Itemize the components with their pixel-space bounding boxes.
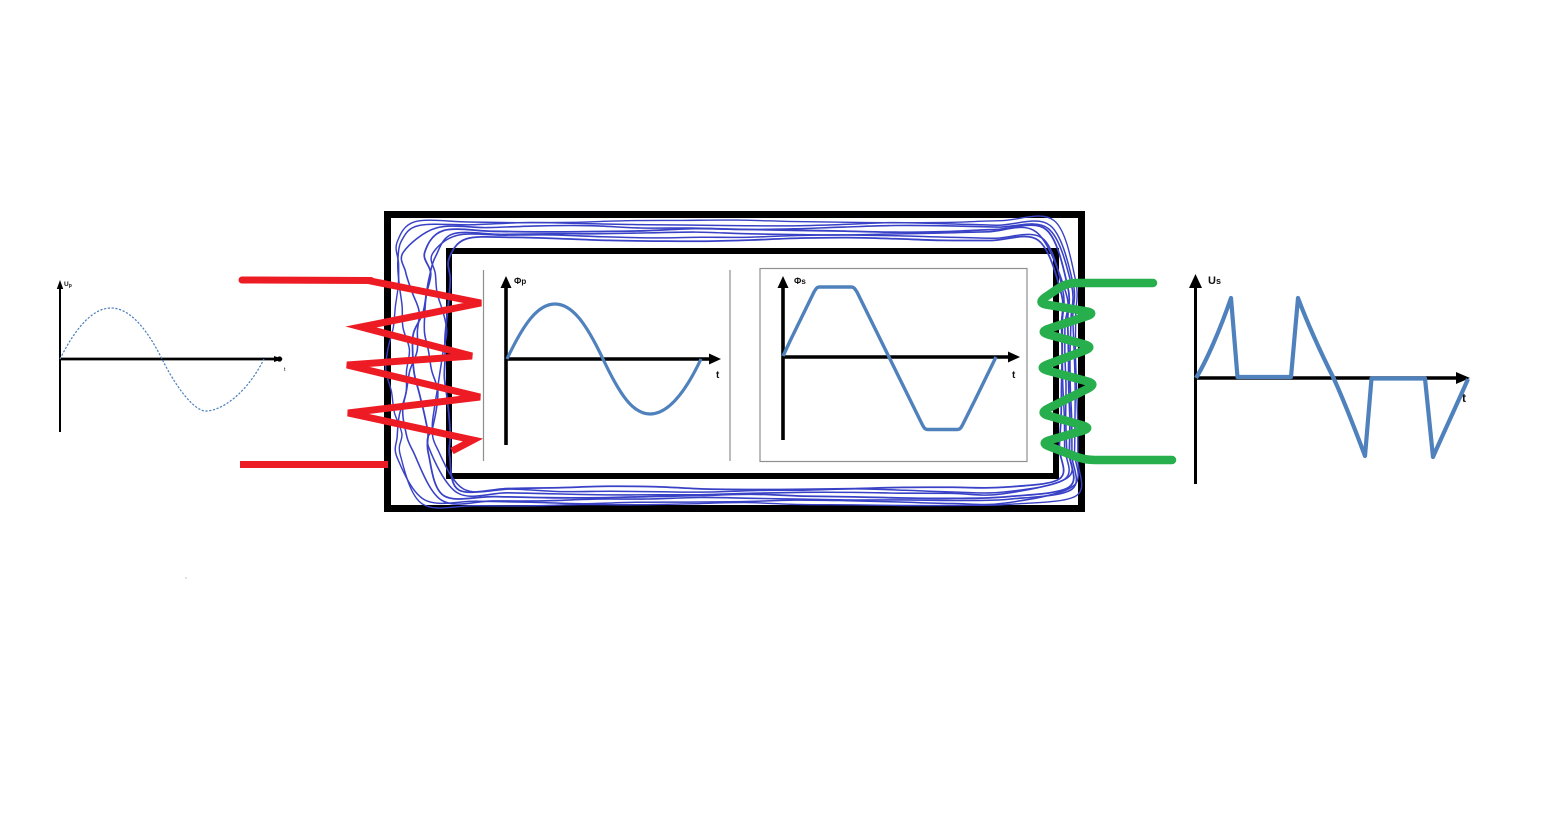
- axis: Up horizontal: [60, 358, 276, 361]
- graph: secondary voltage Us (right outer chart): [1189, 274, 1470, 484]
- axis: flux-s horizontal: [783, 355, 1011, 359]
- flux line F6: [431, 234, 1069, 493]
- wire: primary bottom lead: [240, 461, 388, 468]
- chart box edges: [483, 270, 485, 461]
- flux line F1: [386, 216, 1082, 508]
- curve: flux-p sine wave: [507, 304, 701, 414]
- axis: flux-p horizontal: [506, 357, 712, 361]
- axis: Us vertical: [1194, 284, 1197, 484]
- transformer core (inner window boundary): [449, 251, 1056, 476]
- transformer core (outer boundary): [388, 215, 1082, 509]
- svg-text:Φp: Φp: [514, 276, 526, 286]
- wire: secondary coil spring: [1041, 283, 1172, 460]
- wire: primary coil zigzag: [347, 281, 481, 452]
- axis: flux-s vertical: [781, 284, 785, 440]
- axis: Up vertical: [59, 286, 61, 432]
- svg-text:Us: Us: [1208, 275, 1221, 287]
- secondary winding W2 (green coil): [1041, 283, 1172, 460]
- svg-text:Up: Up: [64, 281, 72, 289]
- curve: Up sine wave: [60, 308, 264, 411]
- wire: primary top lead: [242, 277, 371, 285]
- curve: flux-s trapezoid wave: [783, 287, 996, 430]
- axis: flux-p vertical: [504, 284, 508, 445]
- primary winding W1 (red coil): [240, 280, 481, 465]
- chart box: [760, 269, 1027, 462]
- axis: Us horizontal: [1196, 376, 1461, 379]
- graph: primary voltage Up (left outer chart): [57, 280, 286, 432]
- curve: Us spiky wave: [1196, 298, 1468, 457]
- flux line F2: [395, 221, 1078, 504]
- svg-text:Φs: Φs: [794, 276, 806, 286]
- flux line F7: [444, 236, 1063, 492]
- stray mark: [185, 577, 187, 579]
- flux line F4: [412, 225, 1073, 499]
- graph: primary flux (left inner chart): [484, 270, 731, 461]
- graph: secondary flux (right inner chart, saturated): [760, 269, 1027, 462]
- flux line F3: [401, 224, 1076, 504]
- flux line F5: [424, 227, 1072, 496]
